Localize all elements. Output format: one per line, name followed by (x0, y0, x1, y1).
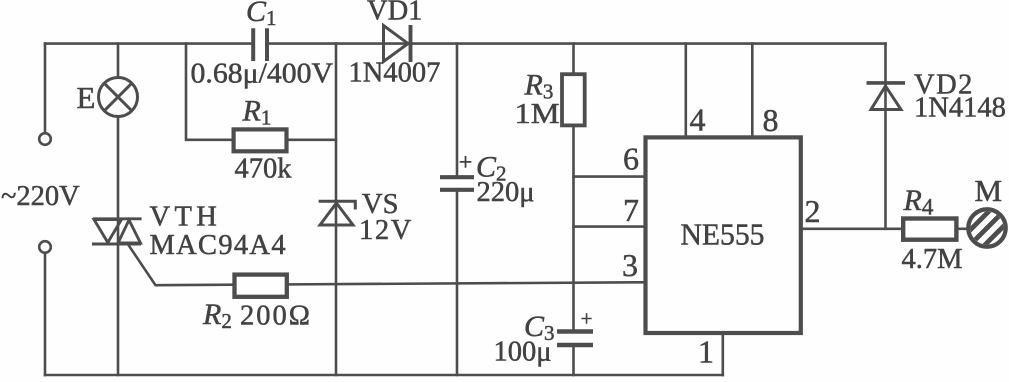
svg-text:7: 7 (623, 192, 639, 228)
svg-text:470k: 470k (235, 154, 293, 185)
svg-text:4: 4 (690, 102, 706, 138)
svg-text:8: 8 (763, 102, 779, 138)
svg-text:E: E (77, 80, 96, 115)
svg-text:200Ω: 200Ω (240, 301, 312, 332)
svg-text:1N4148: 1N4148 (914, 93, 1006, 124)
svg-text:0.68μ/400V: 0.68μ/400V (191, 59, 334, 90)
svg-text:1N4007: 1N4007 (349, 58, 441, 89)
svg-text:2: 2 (805, 193, 821, 229)
svg-text:MAC94A4: MAC94A4 (150, 230, 287, 261)
svg-text:12V: 12V (359, 215, 413, 246)
svg-text:4.7M: 4.7M (902, 244, 963, 275)
svg-text:6: 6 (623, 141, 639, 177)
svg-text:1: 1 (698, 334, 714, 370)
svg-text:M: M (975, 173, 1003, 208)
svg-text:NE555: NE555 (681, 217, 765, 252)
svg-text:VD1: VD1 (367, 0, 422, 27)
svg-text:+: + (581, 306, 593, 330)
svg-text:~220V: ~220V (1, 181, 80, 212)
svg-text:VTH: VTH (150, 202, 222, 233)
svg-text:+: + (459, 150, 473, 176)
svg-text:220μ: 220μ (477, 177, 535, 208)
svg-text:100μ: 100μ (494, 337, 552, 368)
svg-text:3: 3 (622, 247, 638, 283)
svg-text:1M: 1M (515, 99, 560, 130)
